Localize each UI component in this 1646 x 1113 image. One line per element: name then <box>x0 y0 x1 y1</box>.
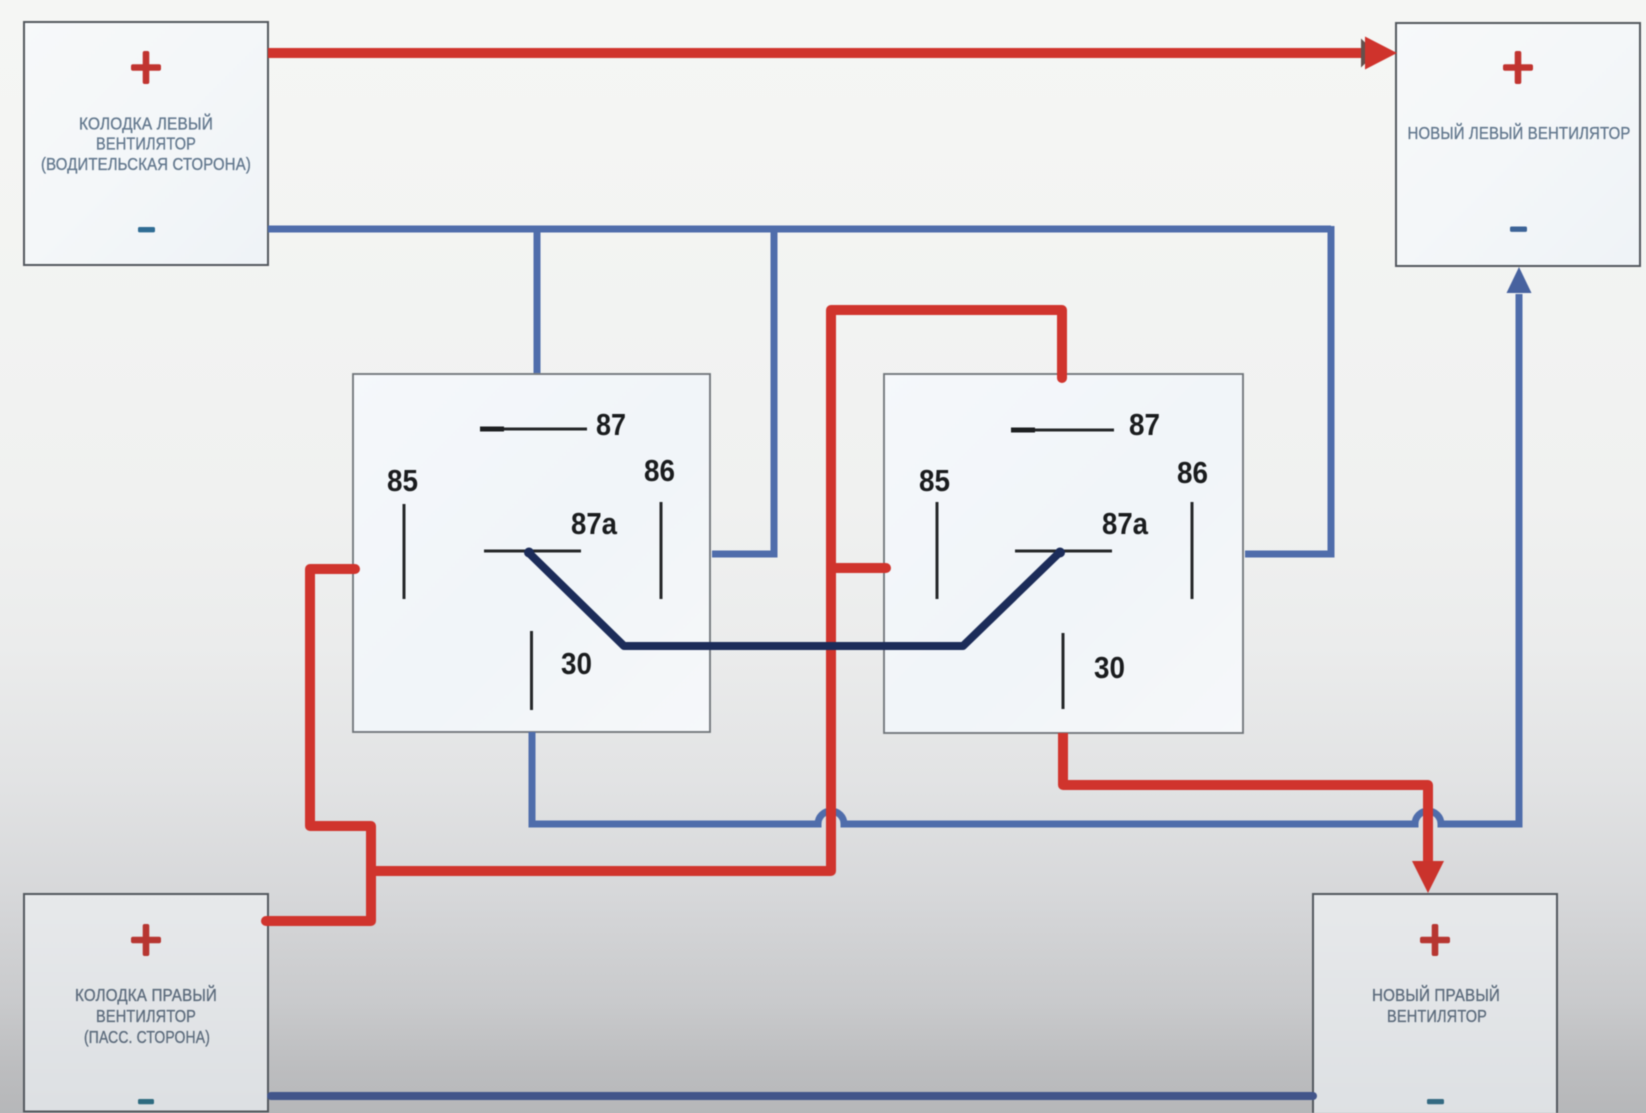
relay K2 pin 85 <box>919 463 950 599</box>
svg-text:87: 87 <box>1129 407 1160 442</box>
wire: dark blue ground bus from right connector minus to new right fan minus <box>271 1092 1313 1100</box>
relay K2 pin 30 <box>1063 633 1125 709</box>
minus terminal of right connector <box>138 1099 154 1104</box>
svg-text:ВЕНТИЛЯТОР: ВЕНТИЛЯТОР <box>1387 1006 1487 1026</box>
svg-text:86: 86 <box>1177 455 1208 490</box>
svg-text:ВЕНТИЛЯТОР: ВЕНТИЛЯТОР <box>96 134 196 154</box>
minus terminal of left connector <box>138 227 155 232</box>
relay K1 pin 86 <box>644 453 675 599</box>
relay K2 body (right relay) <box>884 374 1243 733</box>
svg-text:86: 86 <box>644 453 675 488</box>
svg-text:(ПАСС. СТОРОНА): (ПАСС. СТОРОНА) <box>84 1027 210 1047</box>
arrowhead: red arrow into new left fan plus <box>1361 39 1376 68</box>
svg-text:30: 30 <box>1094 650 1125 685</box>
wire: red from relay K2 pin 30 to new right fan plus <box>1063 733 1428 864</box>
arrowhead: blue arrow into new left fan minus <box>1507 267 1532 293</box>
plus terminal of new left fan <box>1503 51 1533 84</box>
plus terminal of left connector <box>131 51 161 84</box>
svg-text:85: 85 <box>919 463 950 498</box>
plus terminal of new right fan <box>1420 924 1450 956</box>
svg-text:87a: 87a <box>1102 506 1149 541</box>
relay K1 pin 87 <box>480 407 626 442</box>
svg-text:30: 30 <box>561 646 592 681</box>
node: НОВЫЙ ЛЕВЫЙ ВЕНТИЛЯТОР box (new left fan) <box>1396 23 1640 266</box>
relay K1 pin 87a <box>484 506 618 551</box>
svg-text:87a: 87a <box>571 506 618 541</box>
minus terminal of new left fan <box>1510 227 1527 232</box>
relay K1 body (left relay) <box>353 374 710 732</box>
relay K2 pin 87a <box>1015 506 1149 551</box>
relay K2 pin 86 <box>1177 455 1208 599</box>
wire: navy contact arm between relay K1 87a and relay K2 87a <box>524 548 1065 647</box>
svg-text:КОЛОДКА ПРАВЫЙ: КОЛОДКА ПРАВЫЙ <box>75 984 217 1005</box>
svg-text:(ВОДИТЕЛЬСКАЯ СТОРОНА): (ВОДИТЕЛЬСКАЯ СТОРОНА) <box>41 154 251 174</box>
svg-text:87: 87 <box>596 407 626 442</box>
node: КОЛОДКА ПРАВЫЙ ВЕНТИЛЯТОР box (right fan connector, passenger side) <box>24 894 268 1112</box>
relay K1 pin 85 <box>387 463 418 599</box>
wire: red net from right connector plus to relay coils (stairs) and K2 pin 87 <box>266 310 1062 921</box>
svg-text:ВЕНТИЛЯТОР: ВЕНТИЛЯТОР <box>96 1006 196 1026</box>
svg-text:85: 85 <box>387 463 418 498</box>
svg-text:НОВЫЙ ЛЕВЫЙ ВЕНТИЛЯТОР: НОВЫЙ ЛЕВЫЙ ВЕНТИЛЯТОР <box>1408 122 1631 143</box>
minus terminal of new right fan <box>1427 1099 1444 1104</box>
node: НОВЫЙ ПРАВЫЙ ВЕНТИЛЯТОР box (new right fan) <box>1313 894 1557 1113</box>
plus terminal of right connector <box>131 924 161 956</box>
wire: blue negative net from left connector minus to relay tops / pin 86 (steel blue) <box>268 226 1331 554</box>
relay K1 pin 30 <box>532 631 593 710</box>
wire: red positive feed from left connector plus to new left fan plus <box>268 48 1366 58</box>
svg-text:НОВЫЙ ПРАВЫЙ: НОВЫЙ ПРАВЫЙ <box>1372 984 1500 1005</box>
relay K2 pin 87 <box>1011 407 1160 442</box>
svg-text:КОЛОДКА ЛЕВЫЙ: КОЛОДКА ЛЕВЫЙ <box>79 112 213 133</box>
wire: blue net from relay K1 pin 30 to new left fan minus (with hops over red) <box>532 294 1519 824</box>
node: КОЛОДКА ЛЕВЫЙ ВЕНТИЛЯТОР box (left fan connector, driver side) <box>24 22 268 265</box>
arrowhead: red arrow into new right fan plus <box>1412 861 1444 893</box>
